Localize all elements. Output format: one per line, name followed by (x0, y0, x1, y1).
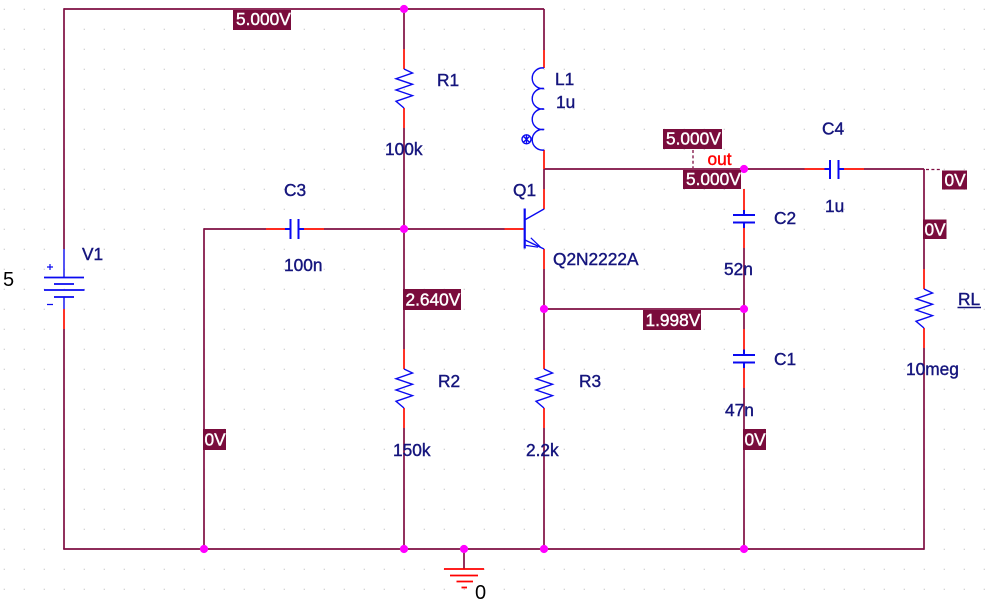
wire left column V1 top (63, 8, 65, 249)
wire ground stem (463, 549, 465, 569)
pin C4 right (844, 168, 864, 170)
junction dot emitter node R3 (540, 305, 548, 313)
pin Q1 emitter (543, 249, 545, 269)
svg-text:47n: 47n (725, 400, 754, 420)
inductor L1 phase dot (522, 135, 531, 144)
svg-text:C2: C2 (774, 208, 796, 228)
svg-text:L1: L1 (555, 69, 574, 89)
voltage label 1.998V (643, 310, 701, 330)
svg-text:R2: R2 (438, 371, 460, 391)
junction dot emitter net C1 (740, 305, 748, 313)
wire C2 bottom to node (743, 248, 745, 309)
wire R3 bottom (543, 428, 545, 549)
wire C3 right to node (324, 228, 404, 230)
voltage label 0V left (203, 429, 226, 450)
resistor RL body (916, 289, 933, 328)
wire R1 top stub (403, 9, 405, 49)
svg-text:C1: C1 (774, 349, 796, 369)
voltage label 0V C1 (743, 429, 766, 450)
wire C1 bottom (743, 388, 745, 549)
wire R2 bottom (403, 428, 405, 549)
svg-text:52n: 52n (724, 259, 753, 279)
transistor Q1 body (525, 209, 544, 250)
ground bar 4 (462, 587, 468, 589)
junction dot out node C2 (740, 165, 748, 173)
wire left column V1 bottom (63, 329, 65, 549)
wire out net horizontal right (864, 168, 924, 170)
capacitor C4 body (825, 160, 845, 179)
svg-text:0: 0 (475, 582, 486, 601)
pin V1 bottom (63, 309, 65, 329)
svg-text:1u: 1u (825, 196, 844, 216)
svg-text:0V: 0V (925, 220, 947, 240)
wire R3 top stub (543, 309, 545, 350)
svg-text:1.998V: 1.998V (646, 310, 701, 330)
junction dot top R1 node (400, 5, 408, 13)
resistor R2 body (396, 369, 413, 408)
svg-text:1u: 1u (556, 92, 575, 112)
pin R2 top (403, 349, 405, 369)
svg-text:C4: C4 (822, 119, 844, 139)
capacitor C1 body (733, 350, 755, 369)
junction dot bottom C3 column (200, 545, 208, 553)
svg-text:Q1: Q1 (513, 180, 536, 200)
wire out net horizontal left (544, 168, 805, 170)
junction dot bottom R2 (400, 545, 408, 553)
battery V1 body (44, 249, 85, 309)
pin C1 top (743, 329, 745, 350)
svg-text:150k: 150k (393, 440, 431, 460)
pin C2 bottom (743, 228, 745, 248)
wire Q1 collector stub (543, 169, 545, 189)
pin RL top (923, 269, 925, 289)
svg-text:0V: 0V (945, 170, 967, 190)
pin C3 right (304, 228, 324, 230)
junction dot base node (400, 225, 408, 233)
resistor R3 body (536, 369, 553, 408)
pin C3 left (266, 228, 285, 230)
wire Q1 emitter to node (543, 269, 545, 309)
wire C3 left column (203, 228, 205, 549)
pin RL bottom (923, 328, 925, 348)
inductor L1 body (532, 68, 544, 150)
wire base net C3 left corner (204, 228, 266, 230)
pin R1 top (403, 49, 405, 69)
pin R3 top (543, 350, 545, 369)
pin Q1 base (505, 228, 524, 230)
label RL (958, 289, 982, 309)
svg-text:out: out (708, 149, 732, 169)
pin R3 bottom (543, 408, 545, 428)
pin C1 bottom (743, 368, 745, 388)
svg-text:100n: 100n (284, 255, 322, 275)
junction dot bottom C1 (740, 545, 748, 553)
leader dashed line probe out (692, 150, 694, 168)
capacitor C2 body (733, 210, 755, 228)
svg-text:5.000V: 5.000V (686, 169, 741, 189)
junction dot bottom R3 (540, 545, 548, 553)
svg-text:100k: 100k (385, 139, 423, 159)
wire L1 top stub (543, 9, 545, 50)
voltage label 0V right top (942, 170, 967, 190)
svg-text:5.000V: 5.000V (666, 129, 721, 149)
pin Q1 collector (543, 189, 545, 209)
wire emitter net horizontal (544, 308, 744, 310)
voltage label 5.000V out upper (663, 129, 722, 150)
wire top net VCC (64, 8, 544, 10)
voltage label 5.000V top (233, 9, 291, 30)
ground bar 2 (450, 575, 478, 577)
svg-text:C3: C3 (284, 180, 306, 200)
svg-text:5.000V: 5.000V (236, 9, 291, 29)
pin L1 bottom (543, 150, 545, 169)
voltage label 2.640V (403, 289, 461, 310)
capacitor C3 body (285, 219, 304, 239)
wire RL column bottom (923, 348, 925, 550)
pin R1 bottom (403, 108, 405, 128)
wire C1 top stub (743, 309, 745, 329)
svg-text:V1: V1 (82, 244, 103, 264)
voltage label 5.000V out lower (683, 169, 741, 189)
svg-text:10meg: 10meg (906, 359, 959, 379)
wire RL column top (923, 169, 925, 269)
svg-text:R3: R3 (579, 371, 601, 391)
junction dot bottom ground (460, 545, 468, 553)
pin C4 left (805, 168, 825, 170)
pin L1 top (543, 50, 545, 68)
pin R2 bottom (403, 408, 405, 428)
svg-text:5: 5 (3, 269, 14, 291)
ground bar 3 (457, 581, 474, 583)
resistor R1 body (396, 69, 413, 108)
voltage label 0V right mid (923, 220, 947, 240)
pin C2 top (743, 189, 745, 210)
leader dashed line probe right 0V (926, 169, 941, 171)
svg-text:Q2N2222A: Q2N2222A (553, 249, 639, 269)
ground bar 1 (444, 568, 484, 570)
wire node to Q1 base (404, 228, 505, 230)
svg-text:RL: RL (958, 289, 980, 309)
wire R1 bottom to base node to R2 (403, 128, 405, 349)
svg-text:2.640V: 2.640V (406, 290, 461, 310)
svg-text:0V: 0V (745, 430, 767, 450)
svg-text:2.2k: 2.2k (526, 440, 559, 460)
svg-text:0V: 0V (205, 430, 227, 450)
svg-text:R1: R1 (437, 70, 459, 90)
wire bottom ground net (63, 548, 924, 550)
